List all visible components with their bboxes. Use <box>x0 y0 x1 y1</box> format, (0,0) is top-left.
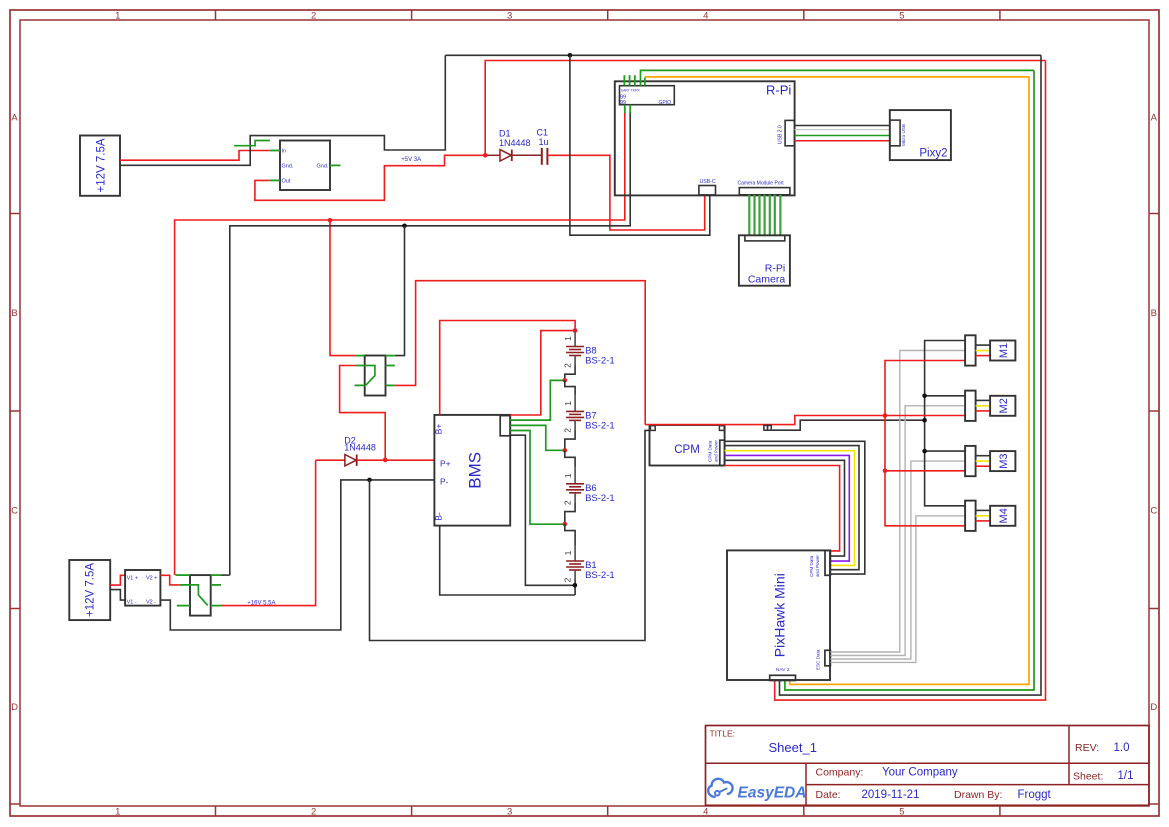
svg-text:2: 2 <box>563 500 573 505</box>
svg-text:Drawn By:: Drawn By: <box>954 789 1002 801</box>
junction red bus M2 <box>883 413 888 418</box>
svg-text:1: 1 <box>563 550 573 555</box>
pin U2 Out <box>270 179 280 181</box>
wire B- (black) <box>440 526 575 595</box>
svg-text:C1: C1 <box>537 127 549 137</box>
svg-text:NAV 2: NAV 2 <box>776 667 790 673</box>
svg-text:3: 3 <box>507 11 512 22</box>
diode D2 1N4448 <box>316 459 345 461</box>
junction red bus M3 <box>883 469 888 474</box>
module Pixy2 <box>890 110 951 160</box>
capacitor C1 1u <box>541 148 543 165</box>
wire CPM-PixHawk black 1 <box>725 441 865 574</box>
wire motor black bus <box>925 341 966 506</box>
junction black bus M2 <box>922 394 927 399</box>
svg-text:B-: B- <box>434 512 444 521</box>
svg-text:R-Pi: R-Pi <box>766 83 791 98</box>
battery B8 BS-2-1 <box>563 331 615 368</box>
motor M1 <box>990 341 1015 361</box>
svg-text:1: 1 <box>115 807 120 818</box>
wire GPIO orange to right bus <box>644 78 646 86</box>
CPM output header <box>720 440 725 465</box>
S2 pin stubs (green) <box>355 355 364 357</box>
wires ESC-M3 <box>976 455 991 457</box>
balance wire 4 (black) <box>510 435 575 585</box>
module U3 dual supply <box>125 570 160 606</box>
svg-text:4: 4 <box>703 11 708 22</box>
svg-text:V2 -: V2 - <box>146 599 156 605</box>
svg-text:P+: P+ <box>440 459 451 469</box>
wire top ground (black) <box>445 54 1041 56</box>
wire +5V from Out (red) <box>255 155 485 200</box>
wires USB2.0 to Pixy2 <box>795 125 890 127</box>
power source PS1 +12V 7.5A <box>80 136 120 196</box>
svg-text:4: 4 <box>703 807 708 818</box>
wire +16V 5.5A (red) <box>221 460 316 605</box>
svg-text:V2 +: V2 + <box>146 575 157 581</box>
svg-text:2: 2 <box>563 577 573 582</box>
ESC M2 <box>965 391 976 421</box>
svg-text:V1 -: V1 - <box>127 599 137 605</box>
wire S2 to CPM (red) <box>395 281 645 425</box>
junction ground top node <box>568 53 573 58</box>
port USB 2.0 <box>785 120 795 145</box>
branch red M3 <box>885 470 965 472</box>
wire node61 to B1 <box>565 524 575 545</box>
EasyEDA logo <box>708 779 806 802</box>
svg-text:Out: Out <box>282 178 291 184</box>
svg-text:Camera Module Port: Camera Module Port <box>738 180 785 186</box>
svg-text:BS-2-1: BS-2-1 <box>585 420 615 431</box>
wire node87 to B7 <box>565 380 575 395</box>
wires ESC Data gray <box>830 351 965 653</box>
switch S2 <box>365 356 386 396</box>
junction red node A <box>328 218 333 223</box>
junction P- node <box>367 478 372 483</box>
motor M2 <box>990 396 1015 416</box>
ESC M3 <box>965 446 976 476</box>
svg-text:TITLE:: TITLE: <box>710 729 736 739</box>
svg-text:1N4448: 1N4448 <box>499 138 531 148</box>
svg-text:D: D <box>1150 702 1157 713</box>
wire header to battery top (red) <box>510 331 575 415</box>
battery B6 BS-2-1 <box>563 468 615 505</box>
svg-text:2019-11-21: 2019-11-21 <box>862 789 920 801</box>
svg-text:1N4448: 1N4448 <box>344 443 376 453</box>
svg-text:P-: P- <box>440 477 449 487</box>
wire CPM-PixHawk red <box>725 466 840 551</box>
balance wire 3 (green) <box>510 431 565 525</box>
CPM top pin left <box>650 426 655 431</box>
battery B7 BS-2-1 <box>563 395 615 432</box>
wire S3 to ground trunk (black) <box>221 574 230 576</box>
svg-text:M3: M3 <box>998 453 1010 468</box>
wire CPM-PixHawk black 2 <box>725 446 859 570</box>
svg-text:B: B <box>11 308 17 319</box>
svg-text:UART TX/RX: UART TX/RX <box>621 89 641 93</box>
wire V2- return (black) <box>340 480 342 630</box>
svg-text:CPM Data: CPM Data <box>707 440 712 462</box>
svg-text:1: 1 <box>563 401 573 406</box>
svg-text:3: 3 <box>507 807 512 818</box>
svg-text:BS-2-1: BS-2-1 <box>585 356 615 367</box>
wire right bus orange <box>790 77 1029 685</box>
svg-text:2: 2 <box>563 428 573 433</box>
svg-text:C: C <box>1150 505 1157 516</box>
module PixHawk Mini <box>727 550 830 680</box>
module U1 R-Pi <box>615 81 795 195</box>
wires ESC-M4 <box>976 509 991 511</box>
wire right bus red <box>775 61 1046 701</box>
svg-text:+12V 7.5A: +12V 7.5A <box>96 138 108 192</box>
switch S1 (green) <box>234 141 270 146</box>
svg-text:Gnd.: Gnd. <box>317 163 329 169</box>
title block <box>706 726 1150 806</box>
svg-text:Gnd.: Gnd. <box>282 163 294 169</box>
svg-text:2: 2 <box>311 11 316 22</box>
switch S3 <box>190 575 211 616</box>
svg-text:BS-2-1: BS-2-1 <box>585 570 615 581</box>
junction +5V node <box>483 153 488 158</box>
port USB-C <box>699 186 716 195</box>
svg-text:ESC Data: ESC Data <box>816 649 821 670</box>
svg-text:Pixy2: Pixy2 <box>919 148 947 160</box>
svg-text:A: A <box>1151 112 1158 123</box>
junction black node B <box>402 224 407 229</box>
battery B1 BS-2-1 <box>563 545 615 582</box>
S2 actuator (green) <box>365 366 375 386</box>
wire PS1- ground (black) <box>120 55 445 165</box>
wires ESC-M1 <box>976 344 991 346</box>
wire GPIO 5V return (red) <box>175 112 625 575</box>
svg-text:CPM Data: CPM Data <box>809 555 814 577</box>
svg-text:+5V 3A: +5V 3A <box>401 157 421 163</box>
wire PS2+ to V1+ (red) <box>110 575 125 585</box>
svg-text:CPM: CPM <box>674 444 700 456</box>
svg-text:B: B <box>1151 308 1157 319</box>
S3 pin stubs (green) <box>176 574 191 576</box>
wire B7 to node76 <box>565 430 575 451</box>
svg-text:+12V 7.5A: +12V 7.5A <box>85 563 97 617</box>
wire CPM-PixHawk black 3 <box>725 460 845 556</box>
junction P+ node <box>383 458 388 463</box>
pin U2 In <box>270 150 280 152</box>
junction B1 bottom node <box>573 583 578 588</box>
module CPM <box>650 425 725 466</box>
wire +5V riser to top (red) <box>485 61 1045 156</box>
svg-text:USB 2.0: USB 2.0 <box>778 125 784 144</box>
branch black M3 <box>925 450 966 452</box>
svg-text:5: 5 <box>899 11 904 22</box>
GPIO pin stubs (green) <box>623 75 625 86</box>
diode D1 1N4448 <box>485 150 542 161</box>
svg-text:and Power: and Power <box>815 555 820 577</box>
S3 actuator (green) <box>190 585 208 606</box>
svg-text:C: C <box>11 505 18 516</box>
svg-text:In: In <box>282 149 287 155</box>
svg-text:1: 1 <box>115 11 120 22</box>
balance wire 1 (green) <box>510 380 565 420</box>
wires ESC-M2 <box>976 399 991 401</box>
branch red M2 <box>885 415 965 417</box>
svg-text:Sheet_1: Sheet_1 <box>769 740 817 755</box>
svg-text:PixHawk Mini: PixHawk Mini <box>772 573 788 657</box>
wire B8 to node87 <box>565 365 575 380</box>
wire GPIO green to right bus <box>641 70 1035 85</box>
svg-text:GPIO: GPIO <box>659 100 672 106</box>
port NAV 2 <box>770 675 796 680</box>
regulator U2 <box>280 141 330 191</box>
junction node61 <box>563 522 568 527</box>
wire P+ (red) <box>385 459 434 461</box>
connector J1 inline <box>764 425 768 430</box>
svg-text:1: 1 <box>563 473 573 478</box>
BMS balance header <box>500 416 510 436</box>
port CPM Data and Power <box>825 550 830 575</box>
svg-text:BS-2-1: BS-2-1 <box>585 493 615 504</box>
module R-Pi Camera <box>739 235 790 285</box>
port Micro USB <box>890 120 900 146</box>
wire PS2- to V1- (black) <box>110 590 125 601</box>
wire B1 bottom <box>574 580 576 596</box>
svg-text:Date:: Date: <box>816 789 841 801</box>
ESC M4 <box>965 501 976 531</box>
wire B6 to node61 <box>565 502 575 524</box>
CPM top pin right <box>719 426 724 431</box>
svg-text:EasyEDA: EasyEDA <box>738 785 807 802</box>
svg-text:USB-C: USB-C <box>700 179 716 185</box>
port ESC Data <box>825 650 831 666</box>
svg-text:Micro USB: Micro USB <box>901 124 906 146</box>
wire PS1+ to regulator In (red) <box>120 151 270 161</box>
svg-text:M2: M2 <box>998 398 1010 413</box>
wire right bus black <box>780 55 1042 695</box>
svg-text:2: 2 <box>311 807 316 818</box>
junction battery top node <box>573 328 578 333</box>
svg-text:B+: B+ <box>434 424 444 435</box>
port Camera Module Port <box>739 188 790 195</box>
wire P- (black) <box>160 480 434 630</box>
svg-text:D1: D1 <box>499 129 511 139</box>
wire ground to USB-C (black) <box>570 55 710 235</box>
wire GPIO ground return (black) <box>230 112 630 575</box>
junction black bus CPM <box>922 418 927 423</box>
wire P- to CPM ground (black) <box>370 430 651 640</box>
junction node87 <box>563 378 568 383</box>
svg-text:1.0: 1.0 <box>1114 742 1130 754</box>
svg-text:Froggt: Froggt <box>1018 789 1052 801</box>
branch black M2 <box>925 395 966 397</box>
svg-text:5: 5 <box>899 807 904 818</box>
pin U2 Gnd right <box>330 164 341 166</box>
svg-text:and Power: and Power <box>713 440 718 462</box>
wire CPM-PixHawk purple <box>725 455 850 561</box>
wire branch to switch S2 (red) <box>330 220 355 355</box>
svg-text:1/1: 1/1 <box>1118 770 1134 782</box>
svg-text:V1 +: V1 + <box>127 575 138 581</box>
junction black bus M3 <box>922 449 927 454</box>
svg-text:D: D <box>11 702 18 713</box>
svg-text:Camera: Camera <box>748 274 786 286</box>
wire branch to switch S2 top-right (black) <box>395 226 405 356</box>
svg-text:M4: M4 <box>998 508 1010 523</box>
wire node76 to B6 <box>565 450 575 467</box>
ESC M1 <box>965 335 976 365</box>
svg-text:Your Company: Your Company <box>882 767 958 779</box>
wire CPM-PixHawk yellow <box>725 451 855 566</box>
wire right bus green <box>785 70 1034 690</box>
title text <box>710 729 1134 802</box>
wire B+ to B8 (red) <box>440 321 575 415</box>
svg-text:1: 1 <box>563 336 573 341</box>
motor M4 <box>990 506 1015 526</box>
wire +5V to USB-C (red) <box>547 155 704 230</box>
wire V2+ to switch S3 (red) <box>160 575 179 585</box>
svg-text:A: A <box>11 112 18 123</box>
svg-text:BMS: BMS <box>466 452 485 489</box>
motor M3 <box>990 451 1015 471</box>
svg-text:Company:: Company: <box>816 767 864 779</box>
wire CPM power (red) <box>645 416 885 425</box>
wire S2 to D2/P+ (red) <box>340 366 386 460</box>
GPIO header <box>620 86 675 105</box>
svg-text:+16V 5.5A: +16V 5.5A <box>247 600 275 606</box>
svg-text:2: 2 <box>563 363 573 368</box>
power source PS2 +12V 7.5A <box>69 560 110 620</box>
wire connector to black bus (black) <box>771 420 924 430</box>
svg-text:Sheet:: Sheet: <box>1073 771 1103 783</box>
balance wire 2 (green) <box>510 425 565 450</box>
svg-text:1u: 1u <box>539 137 549 147</box>
module BMS <box>434 415 510 526</box>
wire motor red bus <box>885 361 965 526</box>
svg-text:REV:: REV: <box>1075 742 1099 754</box>
camera ribbon (green) <box>748 195 750 236</box>
svg-text:M1: M1 <box>998 343 1010 358</box>
junction node76 <box>563 448 568 453</box>
